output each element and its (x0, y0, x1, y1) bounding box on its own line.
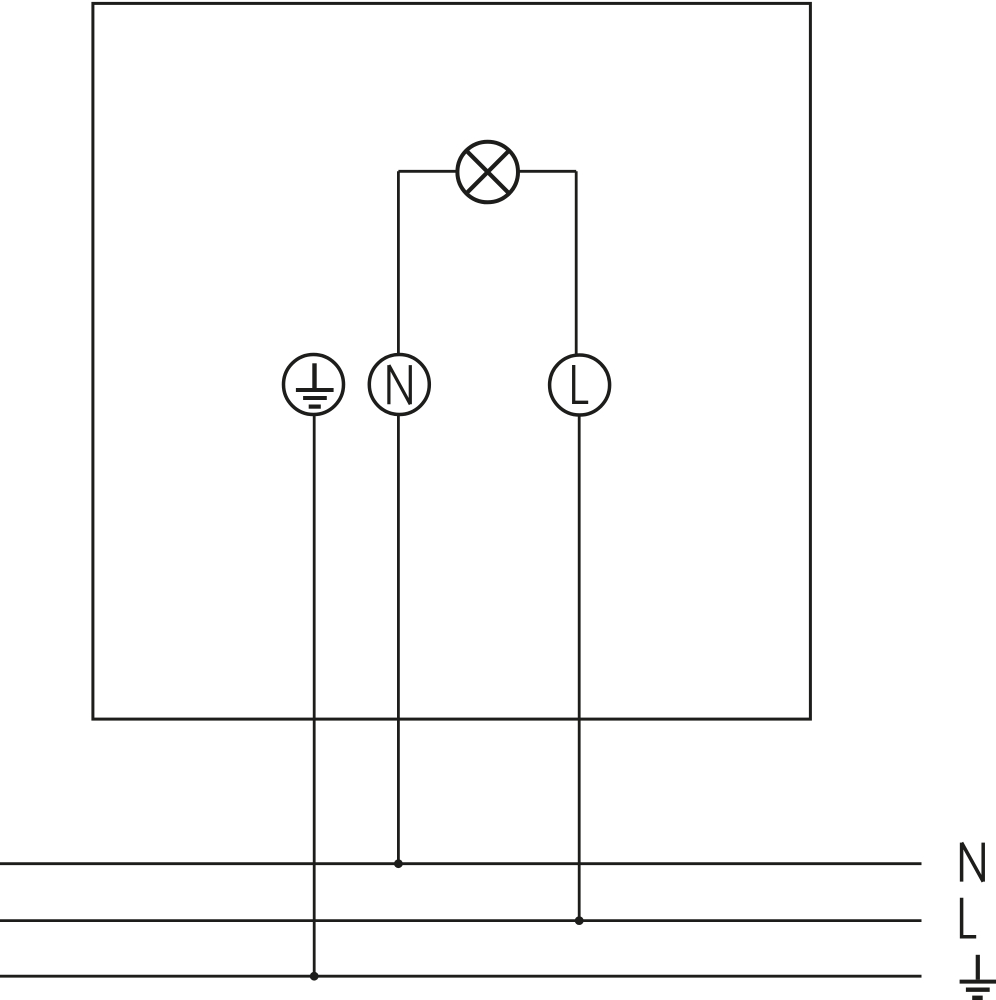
junction dot on L bus (575, 916, 584, 925)
wire: lamp right horizontal (517, 170, 576, 173)
junction dot on PE bus (310, 972, 319, 981)
wire: PE terminal down to PE bus (313, 415, 316, 977)
device outline (sensor/switch housing) (93, 3, 811, 719)
L bus line (0, 919, 922, 922)
N bus line (0, 862, 922, 865)
wire: N terminal down to N bus (397, 415, 400, 864)
label N (962, 843, 984, 882)
wire: lamp left horizontal (398, 170, 459, 173)
earth symbol bottom right (960, 955, 996, 998)
terminal N (369, 355, 429, 415)
terminal L (550, 355, 610, 415)
wire: right vertical from lamp to L terminal (575, 171, 578, 356)
wire: left vertical from lamp to N terminal (397, 171, 400, 355)
terminal PE (earth) (284, 355, 344, 415)
lamp E1 (457, 142, 518, 203)
wire: L terminal down to L bus (578, 415, 581, 920)
label L (962, 898, 977, 937)
junction dot on N bus (394, 859, 403, 868)
PE bus line (0, 975, 922, 978)
